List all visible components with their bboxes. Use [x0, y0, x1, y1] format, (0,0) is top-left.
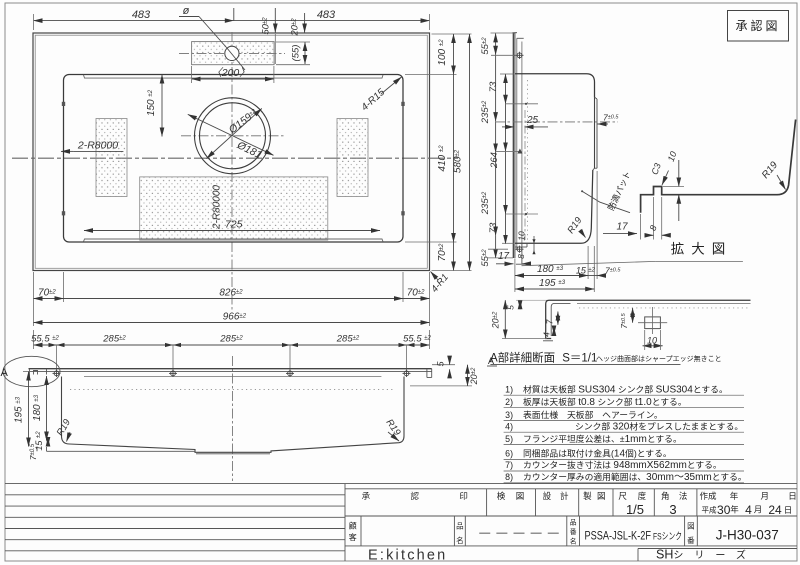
svg-text:〈200〉: 〈200〉: [211, 67, 250, 79]
section top cap: [513, 32, 518, 34]
svg-text:印: 印: [459, 491, 468, 501]
dim 50 ext: [274, 8, 276, 33]
svg-text:725: 725: [225, 219, 243, 231]
dim 8 detail: [653, 197, 655, 240]
svg-text:品: 品: [570, 519, 577, 527]
svg-text:(55): (55): [291, 45, 302, 62]
svg-text:4: 4: [745, 503, 752, 517]
screws in section: [516, 52, 524, 253]
svg-text:平成: 平成: [702, 505, 717, 515]
detail A balloon ellipse: [3, 356, 60, 386]
svg-text:8: 8: [516, 254, 526, 259]
svg-text:73: 73: [488, 222, 499, 233]
svg-text:A: A: [1, 367, 9, 379]
svg-text:ヘッジ曲面部はシャープエッジ無きこと: ヘッジ曲面部はシャープエッジ無きこと: [596, 354, 722, 363]
svg-text:5): 5): [505, 434, 513, 444]
left dotted pad: [96, 119, 127, 197]
left ledger lines: [5, 483, 797, 485]
svg-text:— — — — —: — — — — —: [479, 527, 558, 539]
svg-text:名: 名: [456, 535, 464, 545]
bottom dims 180/15/7 and 195: [514, 259, 516, 293]
drain outer circle: [195, 98, 271, 174]
dim 20 ext: [304, 13, 306, 33]
svg-text:カウンター厚みの適用範囲は、30mm〜35mmとする。: カウンター厚みの適用範囲は、30mm〜35mmとする。: [523, 471, 747, 483]
svg-text:顧: 顧: [349, 521, 357, 531]
svg-text:E:kitchen: E:kitchen: [368, 548, 447, 564]
svg-text:拡大図: 拡大図: [671, 242, 733, 257]
svg-text:表面仕様 天板部 ヘアーライン。: 表面仕様 天板部 ヘアーライン。: [523, 409, 663, 420]
svg-text:製: 製: [583, 491, 592, 501]
svg-text:2-R80000: 2-R80000: [212, 185, 223, 230]
svg-text:作成: 作成: [699, 491, 717, 501]
svg-text:尺: 尺: [618, 491, 627, 501]
faucet hole circle: [225, 46, 239, 60]
svg-text:度: 度: [638, 491, 647, 501]
title block texts: [362, 491, 797, 501]
svg-text:板厚は天板部 t0.8 シンク部 t1.0とする。: 板厚は天板部 t0.8 シンク部 t1.0とする。: [523, 396, 687, 408]
svg-text:73: 73: [488, 81, 499, 92]
svg-text:承認図: 承認図: [735, 18, 780, 33]
dim 17 bottom left of section: [496, 263, 514, 265]
svg-text:30: 30: [717, 503, 731, 517]
left end flange details in balloon: [29, 369, 31, 379]
svg-text:25: 25: [526, 115, 539, 126]
flange inner rect: [35, 35, 427, 268]
svg-text:計: 計: [560, 491, 569, 501]
section centerline: [495, 121, 618, 123]
row3 SH cell: [638, 548, 797, 550]
section main verticals: [512, 33, 514, 258]
svg-text:法: 法: [679, 491, 688, 501]
dim stack line 1: [496, 33, 506, 258]
dia181 dim line: [188, 114, 274, 155]
faucet deck dotted rect: [192, 42, 275, 65]
svg-text:17: 17: [616, 222, 628, 233]
svg-text:SHシリーズ: SHシリーズ: [656, 548, 757, 562]
counter top lines: [571, 299, 751, 301]
svg-text:日: 日: [788, 491, 797, 501]
svg-text:7: 7: [545, 319, 555, 324]
bottom step: [515, 246, 527, 248]
svg-text:材質は天板部 SUS304 シンク部 SUS304とする。: 材質は天板部 SUS304 シンク部 SUS304とする。: [523, 384, 728, 396]
svg-text:3): 3): [505, 410, 513, 420]
svg-text:名: 名: [570, 537, 577, 546]
svg-text:同梱部品は取付け金具(14個)とする。: 同梱部品は取付け金具(14個)とする。: [523, 448, 672, 460]
svg-text:10: 10: [647, 336, 657, 346]
svg-text:264: 264: [489, 152, 500, 169]
svg-text:4: 4: [542, 332, 552, 337]
svg-text:17: 17: [498, 251, 510, 262]
right dotted pad: [337, 119, 368, 197]
svg-text:A部詳細断面: A部詳細断面: [490, 351, 555, 365]
svg-text:検: 検: [497, 491, 506, 501]
screw pitch dims 55.5/285/285/285/55.5: [34, 344, 430, 346]
vertical centerline: [231, 32, 233, 312]
svg-text:1/5: 1/5: [626, 502, 644, 517]
clip marks on bowl edges: [62, 102, 65, 106]
dims below plan: 70 / 826 / 966: [33, 272, 35, 326]
svg-text:図: 図: [516, 491, 525, 501]
svg-text:2-R8000: 2-R8000: [77, 140, 118, 152]
clip fitting: [645, 317, 661, 329]
svg-text:ø: ø: [183, 5, 190, 17]
dim (55): [304, 42, 306, 64]
svg-text:10: 10: [517, 231, 527, 241]
flange hook profile: [546, 300, 571, 338]
svg-text:日: 日: [784, 505, 793, 515]
bowl profile outline: [515, 74, 595, 98]
right side dims of plan: 100 / 410 / 70 / 580: [432, 33, 472, 35]
svg-text:8): 8): [505, 472, 513, 482]
fold dotted line: [70, 389, 393, 391]
flange screws: [53, 370, 411, 377]
svg-text:7): 7): [505, 460, 513, 470]
dim 20 right: [410, 385, 472, 387]
svg-text:6): 6): [505, 449, 513, 459]
dim 483 dim line top: [34, 20, 430, 22]
dim 25: [502, 126, 514, 128]
clip lines in section: [506, 103, 539, 105]
svg-text:角: 角: [661, 491, 670, 501]
flange top lines: [29, 368, 432, 370]
front view centerline: [232, 356, 234, 481]
center dotted pad: [140, 177, 328, 240]
svg-text:3: 3: [669, 502, 676, 517]
dim 725: [84, 230, 380, 232]
svg-text:月: 月: [754, 505, 763, 515]
svg-text:年: 年: [730, 491, 739, 501]
svg-text:483: 483: [132, 9, 151, 21]
row2 verticals: [360, 516, 362, 546]
bowl outer rounded rect: [64, 75, 404, 243]
svg-text:PSSA-JSL-K-2F: PSSA-JSL-K-2F: [585, 530, 652, 542]
svg-text:客: 客: [349, 532, 357, 542]
svg-text:認: 認: [411, 491, 420, 501]
svg-text:カウンター抜き寸法は 948mmX562mmとする。: カウンター抜き寸法は 948mmX562mmとする。: [523, 459, 722, 471]
svg-text:フランジ平坦度公差は、±1mmとする。: フランジ平坦度公差は、±1mmとする。: [523, 433, 682, 445]
left dims 195/180/15/7: [23, 371, 31, 373]
svg-text:J-H30-037: J-H30-037: [716, 528, 779, 543]
svg-text:設: 設: [543, 491, 552, 501]
svg-text:番: 番: [687, 535, 695, 545]
svg-text:品: 品: [456, 522, 464, 531]
right end flange step: [426, 369, 428, 378]
approval stamp box 承認図: [728, 11, 789, 42]
dim 5 right: [432, 364, 455, 366]
right block frame: [345, 488, 797, 490]
svg-text:S＝1/1: S＝1/1: [559, 353, 597, 365]
svg-text:シンク部 320材をプレスしたままとする。: シンク部 320材をプレスしたままとする。: [575, 420, 743, 432]
row1 verticals: [486, 489, 488, 516]
drain inner circle: [200, 103, 266, 169]
svg-text:年: 年: [730, 505, 739, 515]
main horizontal centerline: [12, 157, 458, 159]
svg-text:図: 図: [597, 491, 606, 501]
dim 150: [161, 75, 163, 137]
svg-text:4): 4): [505, 421, 513, 431]
svg-text:1): 1): [505, 385, 513, 395]
bottom rear edge line: [47, 450, 196, 452]
bowl bottom inner edge R8000: [84, 239, 384, 242]
bowl outline front: [62, 377, 405, 453]
dim (200): [192, 78, 274, 80]
svg-text:月: 月: [761, 491, 770, 501]
svg-text:番: 番: [570, 528, 577, 536]
counter cutout outer rect: [33, 33, 430, 271]
dia159 dim line: [207, 109, 262, 159]
svg-text:2): 2): [505, 397, 513, 407]
svg-text:5: 5: [506, 305, 516, 310]
drain circle centerline: [181, 135, 286, 137]
counter line: [84, 376, 381, 378]
faucet centerline: [179, 52, 285, 54]
detail profile: [641, 120, 796, 213]
svg-text:24: 24: [768, 503, 782, 517]
svg-text:FSシンク: FSシンク: [653, 531, 682, 542]
svg-text:承: 承: [362, 491, 371, 501]
bowl top inner edge R8000: [84, 75, 384, 78]
svg-text:図: 図: [687, 522, 695, 531]
svg-text:483: 483: [317, 9, 336, 21]
